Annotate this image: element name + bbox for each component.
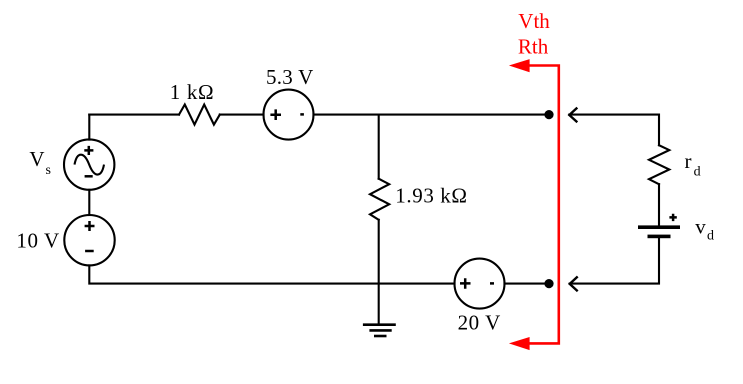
wire top-left vertical: [88, 115, 90, 140]
wire bottom node B to 20V source: [505, 283, 549, 285]
plus of 10V: [85, 221, 95, 231]
red arrowhead top: [509, 59, 530, 72]
plus of 20V: [460, 278, 471, 289]
minus of 20V: [490, 282, 494, 285]
wire 20V source to bottom-left corner: [89, 265, 454, 283]
svg-text:v: v: [695, 215, 706, 239]
wire between 10V and Vs sources: [88, 190, 90, 215]
minus of 5.3V: [300, 113, 304, 116]
svg-text:10 V: 10 V: [16, 229, 59, 253]
minus of 10V: [85, 250, 94, 253]
source V1 5.3 V circle: [264, 90, 314, 140]
svg-text:d: d: [694, 164, 701, 179]
node B dot: [544, 279, 553, 288]
svg-text:d: d: [707, 228, 714, 243]
wire node A arrow to corner: [569, 115, 659, 146]
middle branch wire bottom to ground: [378, 220, 380, 323]
arrow into node A: [569, 108, 577, 123]
svg-text:5.3 V: 5.3 V: [266, 65, 314, 89]
sine symbol of Vs: [75, 155, 105, 175]
red Thevenin cut line: [527, 66, 559, 344]
wire resistor to 5.3V source: [220, 114, 264, 116]
node A dot: [544, 110, 553, 119]
svg-text:V: V: [29, 147, 44, 171]
svg-text:1.93 kΩ: 1.93 kΩ: [395, 183, 467, 207]
arrow into node B: [570, 277, 578, 292]
plus of vd battery: [669, 214, 676, 221]
ground: [363, 325, 396, 336]
resistor R 1 kOhm: [179, 105, 220, 125]
svg-text:s: s: [46, 163, 51, 178]
svg-text:20 V: 20 V: [458, 311, 501, 335]
minus of Vs: [85, 175, 93, 178]
svg-text:Rth: Rth: [518, 35, 549, 59]
svg-text:1 kΩ: 1 kΩ: [170, 80, 214, 104]
source Vs circle: [64, 139, 114, 189]
battery vd plates: [638, 225, 680, 238]
red arrowhead bottom: [509, 337, 530, 350]
middle branch wire top: [378, 115, 380, 179]
resistor R2 1.93 kOhm: [370, 179, 389, 220]
plus of Vs: [84, 146, 93, 155]
source V3 20 V circle: [455, 259, 505, 309]
svg-text:r: r: [685, 149, 692, 173]
wire 5.3V source to node A: [314, 114, 549, 116]
source V2 10 V circle: [64, 215, 114, 265]
plus of 5.3V: [270, 109, 281, 120]
wire battery to bottom-right corner: [570, 238, 659, 283]
resistor rd zigzag: [649, 145, 669, 184]
wire rd to battery: [658, 184, 660, 225]
svg-text:Vth: Vth: [518, 9, 550, 33]
wire top horizontal left: [89, 114, 179, 116]
